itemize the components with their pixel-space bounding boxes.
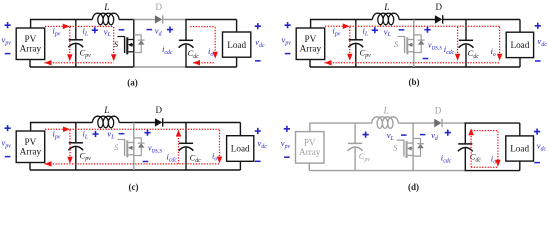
wire top rail PV to L (c) [30,122,93,124]
wire top rail to load (b) [465,19,520,21]
svg-text:(a): (a) [127,78,138,88]
svg-text:Array: Array [300,43,322,53]
wire top rail diode to DC-link node (c) [162,122,186,124]
wire bottom rail to load (d) [465,170,520,172]
capacitor Cdc (d) [458,123,482,171]
wire bottom rail PV to switch (a) [30,66,134,68]
svg-text:S: S [114,40,118,49]
svg-text:Array: Array [299,147,321,157]
label vpv (b) [282,22,292,54]
wire bottom rail to load (a) [185,66,236,68]
capacitor Cpv (a) [68,20,91,68]
label vDS,S (c) [143,130,162,163]
label vL (b) [372,26,405,38]
wire top rail to load (d) [465,122,520,124]
wire top rail diode to DC-link node (b) [442,19,466,21]
wire top rail switch node to diode (a) [133,19,156,21]
wire bottom rail to load (c) [185,169,240,171]
label vdc (c) [255,128,268,162]
wire top rail diode to DC-link node (a) [162,19,186,21]
wire bottom rail switch to DC-link (b) [413,66,466,68]
current path full loop (c) [45,126,223,166]
current path input loop (a) [45,24,117,66]
load (c) [227,123,254,171]
PV array source (d) [296,132,325,164]
diode D (d) [434,106,442,128]
label vpv (c) [2,125,12,157]
capacitor Cdc (b) [459,20,480,68]
current path output loop (a) [190,27,218,66]
wire switch branch (b) [413,20,415,68]
wire top rail PV to L (b) [310,19,373,21]
svg-text:Load: Load [227,40,246,50]
diode D (c) [155,105,163,127]
inductor L (c) [93,106,119,128]
wire top rail diode to DC-link node (d) [442,122,466,124]
svg-text:Array: Array [20,146,42,156]
inductor L (d) [372,107,399,129]
label vd (a) [147,26,174,38]
label vd (d) [420,130,451,143]
label vdc (d) [534,129,547,164]
wire PV top lead (b) [310,20,312,29]
load (a) [223,20,251,68]
wire PV top lead (c) [30,123,32,132]
wire top rail switch node to diode (d) [412,122,435,124]
body diode of S (a) [134,35,145,53]
svg-text:S: S [393,144,397,153]
svg-text:Load: Load [510,40,529,50]
label vpv (d) [281,126,291,158]
PV array source (c) [16,131,45,163]
label vL (c) [92,129,124,141]
body diode of S (b) [414,35,425,53]
label vdc (a) [255,23,265,61]
transistor S (MOSFET) (b) [394,36,414,54]
wire bottom rail switch to DC-link (d) [412,170,465,172]
transistor S (MOSFET) (a) [114,36,134,54]
label vL (a) [92,26,125,38]
wire bottom rail PV to switch (b) [310,66,414,68]
transistor S (MOSFET) (c) [114,139,134,157]
wire switch branch (c) [133,123,135,171]
svg-text:L: L [383,3,389,13]
svg-text:D: D [435,106,442,116]
inductor L (b) [373,3,400,25]
wire switch branch (d) [412,123,414,171]
wire top rail L to switch node (c) [119,122,134,124]
PV array source (a) [16,28,45,60]
svg-text:Array: Array [20,43,42,53]
svg-text:D: D [155,2,162,12]
svg-text:L: L [383,107,389,117]
load (b) [506,20,533,68]
label vDS,S (b) [423,27,442,60]
wire top rail switch node to diode (b) [413,19,436,21]
wire top rail to load (c) [185,122,240,124]
svg-text:Load: Load [231,144,250,154]
current path output loop (d) [468,128,500,167]
svg-text:Load: Load [510,144,529,154]
wire bottom rail switch to DC-link (a) [133,66,186,68]
load (d) [506,123,534,171]
wire top rail to load (a) [185,19,236,21]
wire top rail switch node to diode (c) [133,122,156,124]
wire top rail PV to L (a) [30,19,93,21]
svg-text:(b): (b) [409,77,420,87]
PV array source (b) [296,28,325,60]
svg-text:D: D [435,2,442,12]
wire top rail L to switch node (b) [399,19,414,21]
body diode of S (c) [134,138,145,156]
capacitor Cdc (a) [179,20,200,68]
wire PV top lead (a) [30,20,32,29]
wire top rail L to switch node (d) [398,122,413,124]
svg-text:S: S [114,143,118,152]
label vpv (a) [2,22,12,54]
wire bottom rail to load (b) [465,66,520,68]
svg-text:L: L [103,106,109,116]
wire bottom rail switch to DC-link (c) [133,169,186,171]
capacitor Cpv (c) [68,123,91,171]
wire top rail PV to L (d) [309,122,372,124]
diode D (b) [435,2,443,24]
wire bottom rail PV to switch (d) [309,170,413,172]
body diode of S (d) [413,139,424,157]
diode D (a) [155,2,163,24]
current path full loop (b) [325,24,503,66]
wire switch branch (a) [133,20,135,68]
capacitor Cpv (b) [348,20,371,68]
wire PV bottom lead (c) [29,163,31,171]
svg-text:D: D [155,105,162,115]
svg-text:(c): (c) [129,182,139,192]
wire PV bottom lead (b) [309,60,311,68]
svg-text:S: S [394,40,398,49]
label vL (d) [363,130,407,142]
inductor L (a) [93,3,119,25]
label vdc (b) [535,23,548,62]
transistor S (MOSFET) (d) [393,140,413,158]
wire PV bottom lead (d) [308,163,310,171]
svg-text:(d): (d) [408,182,419,192]
capacitor Cdc (c) [179,123,202,171]
wire top rail L to switch node (a) [119,19,134,21]
wire PV bottom lead (a) [29,60,31,68]
wire bottom rail PV to switch (c) [30,169,134,171]
capacitor Cpv (d) [348,123,371,171]
svg-text:L: L [103,3,109,13]
wire PV top lead (d) [309,123,311,132]
